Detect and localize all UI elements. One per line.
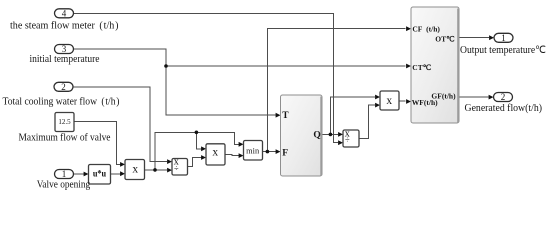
svg-text:x: x [212, 146, 218, 158]
svg-text:u*u: u*u [93, 168, 106, 178]
svg-text:4: 4 [62, 8, 67, 18]
svg-text:Total cooling water flow ( t/: Total cooling water flow ( t/h ) [3, 97, 120, 108]
svg-text:T: T [282, 111, 289, 121]
svg-text:min: min [246, 147, 259, 156]
svg-text:x: x [386, 95, 392, 107]
svg-text:2: 2 [61, 82, 66, 92]
svg-text:Valve opening: Valve opening [37, 180, 91, 191]
svg-text:3: 3 [62, 44, 67, 54]
svg-text:CF (t/h): CF (t/h) [412, 25, 440, 34]
svg-text:Q: Q [313, 130, 320, 140]
svg-text:Generated flow(t/h): Generated flow(t/h) [465, 103, 543, 114]
svg-text:Maximum flow of valve: Maximum flow of valve [19, 132, 111, 143]
svg-text:GF(t/h): GF(t/h) [431, 92, 456, 101]
svg-text:the steam flow meter ( t/h ): the steam flow meter ( t/h ) [10, 20, 119, 31]
svg-text:F: F [282, 148, 288, 158]
svg-text:initial temperature: initial temperature [30, 54, 100, 65]
svg-text:Output temperature℃: Output temperature℃ [460, 45, 546, 56]
svg-text:÷: ÷ [345, 135, 350, 145]
svg-text:1: 1 [62, 169, 67, 179]
svg-text:12.5: 12.5 [58, 118, 71, 126]
svg-text:2: 2 [501, 92, 506, 102]
svg-text:1: 1 [501, 33, 506, 43]
svg-text:CT℃: CT℃ [412, 63, 431, 72]
svg-text:x: x [132, 163, 138, 175]
svg-text:OT℃: OT℃ [435, 34, 455, 43]
svg-text:÷: ÷ [174, 163, 179, 173]
